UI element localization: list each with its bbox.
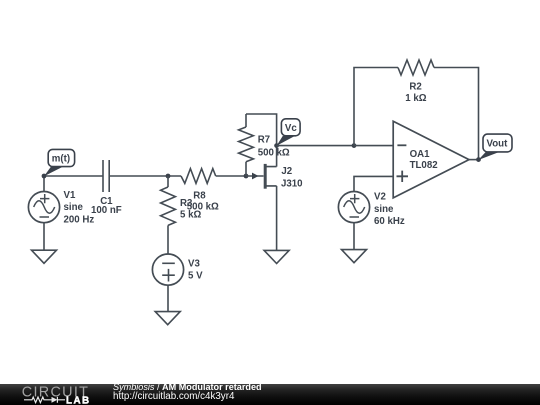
ground under J2 source: [264, 250, 289, 263]
junction dot node Vc: [274, 143, 279, 148]
wire: R2 right down to output: [434, 68, 479, 160]
svg-text:V2: V2: [374, 192, 386, 203]
wire: V2 bottom to ground: [353, 223, 355, 250]
svg-text:sine: sine: [374, 204, 394, 215]
wire: R7 top lead: [245, 114, 247, 127]
ground under V3: [155, 312, 180, 325]
node m(t) label: [44, 149, 75, 176]
transistor J2 gate arrow: [252, 173, 259, 180]
ground under V2: [342, 250, 367, 263]
R8 labels: [187, 190, 219, 212]
wire: R3 bottom to V3: [167, 225, 169, 254]
V3 labels: [188, 258, 203, 281]
svg-text:OA1: OA1: [410, 149, 431, 160]
wire: main horizontal net m(t) from V1 top to C1 left plate: [44, 175, 103, 177]
wire: drain up to R7 top corner: [246, 114, 277, 167]
svg-text:m(t): m(t): [52, 154, 70, 165]
svg-text:R2: R2: [409, 82, 421, 93]
svg-text:LAB: LAB: [66, 395, 91, 405]
node Vout label: [478, 134, 512, 160]
footer bar: [0, 384, 540, 405]
wire: gate junction to JFET gate: [246, 175, 264, 177]
svg-text:TL082: TL082: [410, 160, 438, 171]
wire: C1 right plate to R3 junction: [109, 175, 181, 177]
svg-text:100 nF: 100 nF: [91, 205, 122, 216]
J2 labels: [281, 166, 303, 189]
svg-text:500 kΩ: 500 kΩ: [258, 147, 290, 158]
wire: Vc to op-amp inverting branch: [277, 145, 354, 147]
svg-text:200 Hz: 200 Hz: [64, 214, 95, 225]
junction dot R2 tee: [352, 143, 357, 148]
wire: tee to op-amp minus input: [354, 145, 393, 147]
svg-text:5 V: 5 V: [188, 271, 203, 282]
wire: V2 to op-amp plus input: [354, 176, 393, 191]
svg-text:J2: J2: [281, 166, 292, 177]
svg-text:Vout: Vout: [487, 139, 509, 150]
svg-text:sine: sine: [64, 202, 84, 213]
svg-text:J310: J310: [281, 178, 303, 189]
node Vc label: [277, 119, 301, 146]
svg-text:5 kΩ: 5 kΩ: [180, 210, 201, 221]
voltage source V3: [152, 254, 183, 285]
junction dot node m(t): [42, 174, 47, 179]
resistor R8: [181, 169, 216, 184]
wire: source down to ground: [276, 186, 278, 251]
R3 labels: [180, 198, 201, 221]
C1 labels: [91, 196, 122, 216]
transistor J2 J310: [265, 164, 276, 189]
wire: R3 top lead: [167, 176, 169, 187]
voltage source V2: [338, 192, 369, 223]
svg-text:1 kΩ: 1 kΩ: [405, 93, 426, 104]
V2 labels: [374, 192, 405, 227]
wire: R7 bottom lead to gate junction: [245, 162, 247, 176]
OA1 labels: [410, 149, 438, 171]
R7 labels: [258, 135, 290, 159]
wire: V3 bottom to ground: [167, 285, 169, 311]
svg-text:R3: R3: [180, 198, 193, 209]
junction dot R3 tee: [166, 174, 171, 179]
wire: op-amp output: [469, 159, 479, 161]
wire: R8 right lead to gate junction: [216, 175, 246, 177]
V1 labels: [64, 190, 95, 225]
wire: V1 bottom lead to ground: [43, 223, 45, 251]
ground under V1: [32, 250, 57, 263]
voltage source V1: [28, 192, 59, 223]
resistor R7: [239, 127, 254, 162]
CircuitLab logo: [0, 384, 100, 405]
svg-text:V3: V3: [188, 258, 200, 269]
resistor R2: [398, 60, 434, 75]
R2 labels: [405, 82, 426, 104]
wire: V1 top lead: [43, 176, 45, 192]
resistor R3: [161, 187, 176, 225]
op-amp OA1: [393, 121, 469, 198]
svg-text:Vc: Vc: [285, 123, 297, 134]
wire: tee up to R2 left: [354, 68, 398, 146]
capacitor C1: [103, 160, 109, 192]
svg-text:R7: R7: [258, 135, 270, 146]
junction dot output: [476, 157, 481, 162]
svg-text:V1: V1: [64, 190, 76, 201]
junction dot gate tee: [244, 174, 249, 179]
svg-text:R8: R8: [193, 190, 206, 201]
svg-text:60 kHz: 60 kHz: [374, 216, 405, 227]
